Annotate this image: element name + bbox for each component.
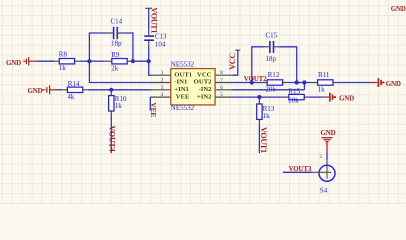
- resistor R12 pins: [262, 82, 288, 84]
- svg-text:R8: R8: [59, 51, 68, 59]
- net stub VCC tick: [235, 49, 240, 51]
- svg-text:5: 5: [220, 92, 223, 98]
- node X1 junction: [295, 80, 299, 84]
- wire: GND down to connector S4: [326, 153, 328, 160]
- capacitor C15: [270, 41, 274, 53]
- svg-text:VEE: VEE: [176, 93, 190, 100]
- svg-text:R15: R15: [288, 87, 300, 95]
- resistor R14 pins: [62, 89, 87, 91]
- wire: pin7 to R12: [233, 82, 262, 84]
- op-amp U NE5532 pins left: [151, 75, 171, 97]
- node E junction: [250, 80, 254, 84]
- wire: node A to R9: [89, 60, 104, 62]
- resistor R13 pins: [258, 97, 260, 124]
- resistor R13: [257, 104, 262, 119]
- capacitor C13: [144, 36, 154, 40]
- svg-text:GND: GND: [28, 87, 43, 95]
- capacitor C14 feedback loop wires: [89, 33, 132, 61]
- svg-text:7: 7: [220, 78, 223, 84]
- svg-text:S4: S4: [320, 187, 328, 195]
- wire: R14 to node D: [88, 89, 112, 91]
- svg-text:8: 8: [220, 70, 223, 76]
- resistor R12: [267, 80, 282, 85]
- svg-text:R11: R11: [318, 71, 330, 79]
- op-amp U1 NE5532 body: [171, 69, 215, 105]
- resistor R8 pins: [52, 60, 80, 62]
- resistor R15: [289, 94, 304, 99]
- svg-text:GND: GND: [391, 5, 406, 13]
- wire: C13 down to node C: [148, 46, 150, 61]
- wire: R15 to GND: [309, 96, 323, 98]
- svg-text:104: 104: [155, 40, 166, 48]
- wire: node C down to pin1: [149, 61, 151, 75]
- wire: VOUT3 to connector S4: [283, 171, 313, 173]
- wire: VOUT1 stub down to C13: [148, 8, 150, 30]
- svg-text:4: 4: [161, 92, 164, 98]
- svg-text:C14: C14: [111, 17, 123, 25]
- wire: pin6 to node X2: [233, 89, 305, 91]
- svg-text:18p: 18p: [111, 40, 122, 48]
- resistor R11: [318, 80, 333, 85]
- svg-text:+IN1: +IN1: [174, 86, 189, 93]
- resistor R9 pins: [105, 60, 133, 62]
- svg-text:R9: R9: [111, 51, 120, 59]
- svg-text:GND: GND: [386, 80, 401, 88]
- svg-text:GND: GND: [321, 129, 336, 137]
- svg-text:1k: 1k: [59, 64, 67, 72]
- node A junction: [87, 59, 91, 63]
- wire: R10 down: [110, 116, 112, 153]
- power port GND (right of R15): [323, 93, 354, 103]
- svg-text:2k: 2k: [111, 65, 119, 73]
- wire: GND to R8: [37, 60, 54, 62]
- resistor R8: [59, 59, 74, 64]
- resistor R11 pins: [312, 82, 338, 84]
- resistor R15 pins: [284, 96, 310, 98]
- svg-text:-IN1: -IN1: [174, 79, 187, 86]
- resistor R10: [109, 96, 114, 111]
- power port GND (left, row A): [6, 57, 37, 67]
- svg-text:4k: 4k: [67, 93, 75, 101]
- wire: R8 to node A: [80, 60, 90, 62]
- svg-text:GND: GND: [339, 95, 354, 103]
- connector S4: [319, 165, 335, 181]
- svg-text:1: 1: [161, 70, 164, 76]
- svg-text:GND: GND: [6, 59, 21, 67]
- resistor R10 pins: [110, 90, 112, 116]
- node X2 junction: [302, 80, 306, 84]
- wire: pin8 to VCC: [233, 51, 238, 76]
- svg-text:6: 6: [220, 85, 223, 91]
- svg-text:18p: 18p: [266, 55, 277, 63]
- wire: pin4 to VEE stub: [149, 97, 151, 111]
- svg-text:NE5532: NE5532: [171, 104, 195, 112]
- power port GND (right of R11): [370, 78, 401, 88]
- svg-text:VOUT4: VOUT4: [107, 126, 116, 152]
- wire: node D to pin3: [111, 89, 151, 91]
- power port GND (left, row pin3): [28, 85, 57, 94]
- svg-text:VOUT1: VOUT1: [150, 7, 159, 33]
- capacitor C15 loop wires: [252, 47, 297, 83]
- svg-text:VCC: VCC: [228, 53, 237, 70]
- svg-text:OUT1: OUT1: [174, 71, 192, 78]
- node D junction: [109, 88, 113, 92]
- svg-text:VCC: VCC: [197, 71, 212, 78]
- svg-text:R14: R14: [68, 80, 80, 88]
- svg-text:20k: 20k: [288, 97, 299, 105]
- svg-text:NE5532: NE5532: [171, 61, 195, 69]
- svg-text:2: 2: [161, 78, 164, 84]
- svg-text:OUT2: OUT2: [194, 79, 212, 86]
- svg-text:R12: R12: [268, 71, 280, 79]
- wire: pin5 to R15: [233, 96, 284, 98]
- svg-text:1k: 1k: [318, 86, 326, 94]
- resistor R9: [112, 59, 127, 64]
- wire: GND to R14: [57, 89, 63, 91]
- net stub VOUT1 (top): [145, 7, 152, 9]
- svg-text:+IN2: +IN2: [197, 93, 212, 100]
- op-amp U NE5532 pins right: [215, 75, 232, 97]
- capacitor C14: [114, 27, 118, 39]
- node F junction: [257, 95, 261, 99]
- svg-text:1k: 1k: [263, 112, 271, 120]
- svg-text:3: 3: [161, 85, 164, 91]
- node C junction: [147, 59, 151, 63]
- resistor R14: [67, 87, 82, 92]
- wire: node X2 down to pin6 row: [303, 83, 305, 90]
- wire: R12 to node X: [288, 82, 313, 84]
- power port GND (above S4): [321, 129, 336, 152]
- svg-text:C15: C15: [266, 31, 278, 39]
- wire: R13 down: [258, 124, 260, 153]
- svg-text:1k: 1k: [115, 102, 123, 110]
- svg-text:VEE: VEE: [149, 102, 158, 117]
- wire: R11 to GND: [338, 82, 370, 84]
- node B junction: [131, 59, 135, 63]
- svg-text:VOUT1: VOUT1: [259, 127, 268, 153]
- wire: node A down to pin2: [89, 61, 151, 82]
- wire: node B to node C: [133, 60, 149, 62]
- svg-text:VOUT3: VOUT3: [289, 165, 312, 173]
- svg-text:-IN2: -IN2: [198, 86, 212, 93]
